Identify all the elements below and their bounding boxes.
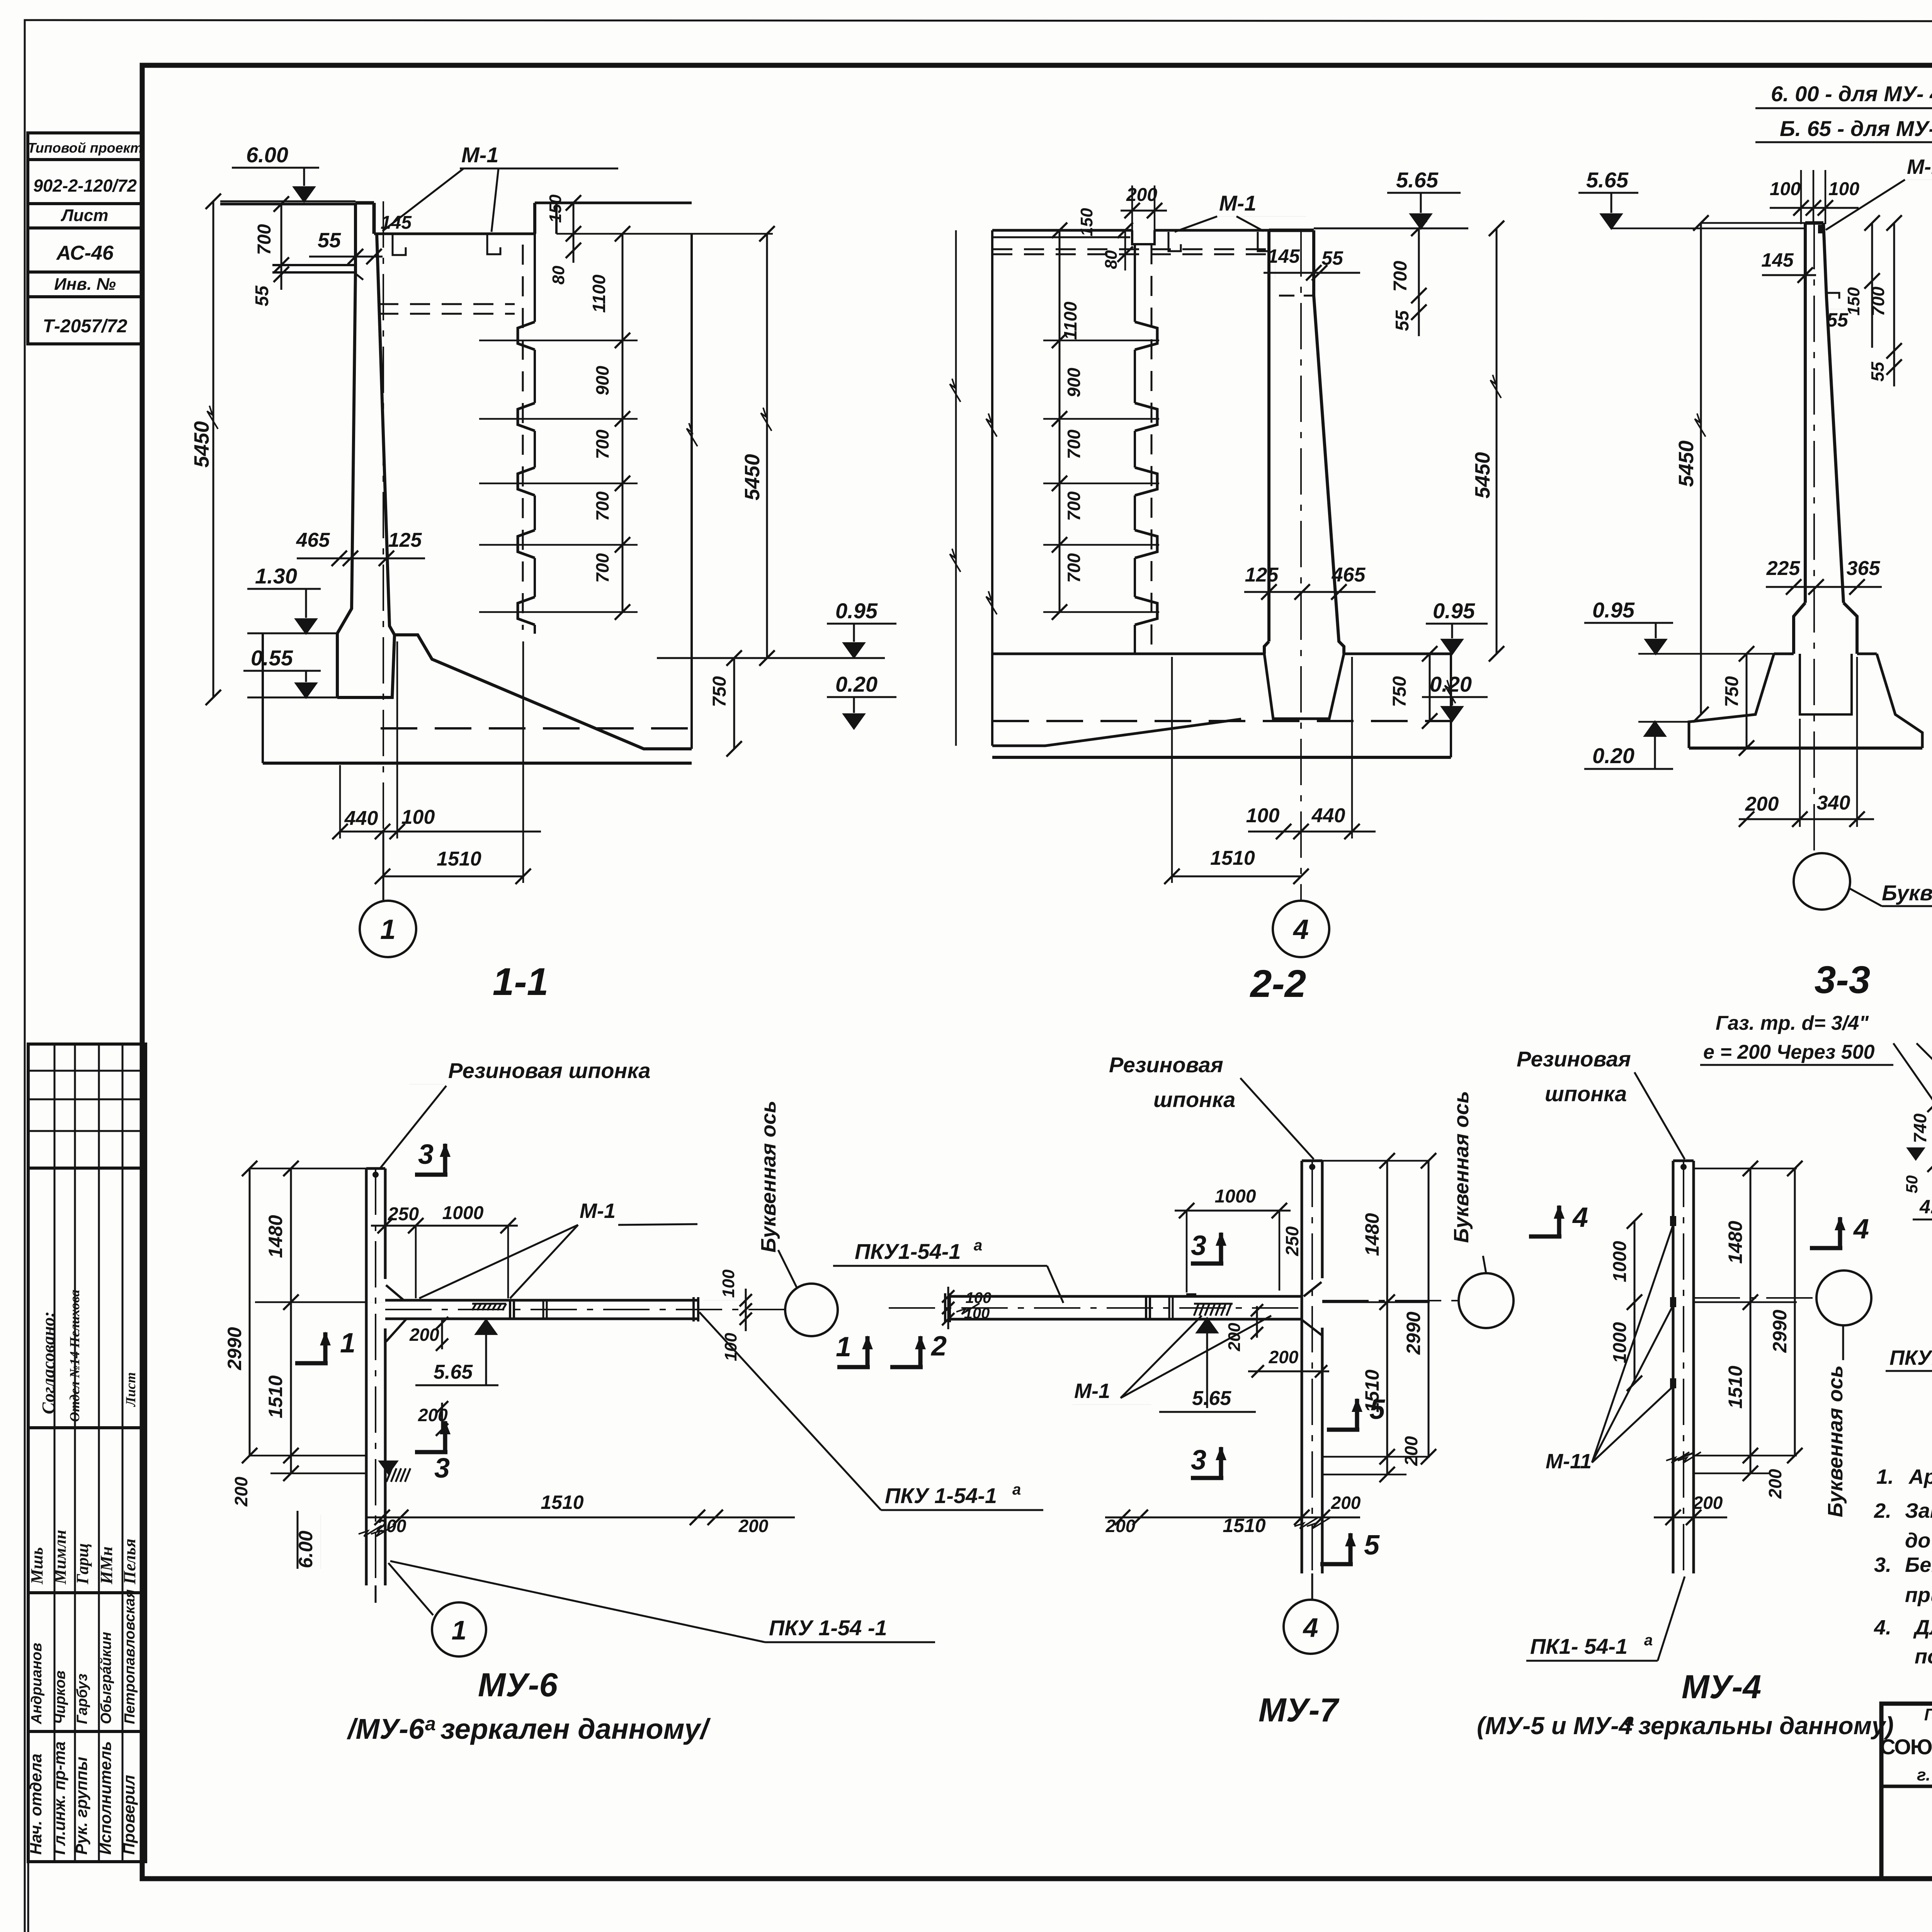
svg-text:6. 00 - для МУ- 4, МУ- 4: 6. 00 - для МУ- 4, МУ- 4: [1771, 82, 1932, 106]
MU-4 letter axis circle: [1816, 1270, 1871, 1325]
svg-text:Пелья: Пелья: [120, 1539, 139, 1585]
svg-text:1510: 1510: [437, 848, 481, 870]
svg-text:80: 80: [1102, 250, 1121, 269]
svg-text:200: 200: [1693, 1493, 1723, 1513]
svg-text:700: 700: [254, 224, 275, 255]
svg-text:1480: 1480: [265, 1215, 286, 1258]
svg-text:700: 700: [1064, 553, 1084, 583]
svg-text:Буквенная ось: Буквенная ось: [1824, 1365, 1847, 1517]
svg-text:Гл.инж. пр-та: Гл.инж. пр-та: [50, 1742, 68, 1855]
svg-text:ПКУ 1-54 -1: ПКУ 1-54 -1: [769, 1616, 887, 1640]
svg-text:200: 200: [1225, 1323, 1244, 1352]
svg-text:применением Вибрирования.: применением Вибрирования.: [1905, 1583, 1932, 1607]
svg-text:100: 100: [1770, 179, 1801, 199]
svg-text:2990: 2990: [224, 1327, 245, 1370]
svg-text:200: 200: [1105, 1516, 1136, 1536]
MU-7 cut symbols 3 3 5 5: [1191, 1232, 1226, 1264]
svg-text:4: 4: [1853, 1214, 1869, 1245]
svg-text:Госстрой: Госстрой: [1924, 1705, 1932, 1724]
MU-7 junction chamfers and hatch: [1304, 1282, 1321, 1296]
svg-text:2: 2: [930, 1331, 947, 1362]
svg-text:М-1: М-1: [461, 143, 498, 167]
svg-text:1000: 1000: [1215, 1186, 1256, 1207]
svg-text:6.00: 6.00: [246, 143, 288, 167]
3-3 axis and letter-axis circle: [1813, 223, 1815, 853]
cut symbols 1 2 between MU-6 and MU-7: [837, 1335, 873, 1367]
MU-7 level mark on branch: [1197, 1318, 1217, 1332]
svg-text:Бетонирование производить: Бетонирование производить с обязательным: [1905, 1553, 1932, 1577]
svg-text:4: 4: [1572, 1202, 1588, 1233]
svg-text:2-2: 2-2: [1250, 962, 1306, 1005]
MU-6 axis circle 1: [375, 1585, 377, 1603]
svg-text:5.65: 5.65: [1586, 168, 1629, 192]
svg-text:ПКУ1-54-1: ПКУ1-54-1: [1889, 1346, 1932, 1369]
svg-text:Исполнитель: Исполнитель: [96, 1741, 114, 1855]
svg-text:200: 200: [1331, 1493, 1361, 1513]
svg-text:2990: 2990: [1403, 1311, 1424, 1355]
svg-text:740: 740: [1910, 1113, 1930, 1143]
svg-text:1-1: 1-1: [493, 960, 549, 1003]
svg-text:Буквенная ось: Буквенная ось: [1450, 1091, 1473, 1243]
svg-text:шпонка: шпонка: [1153, 1087, 1235, 1112]
svg-text:3: 3: [1191, 1445, 1206, 1476]
svg-text:700: 700: [1868, 286, 1888, 316]
svg-text:Гарбуз: Гарбуз: [74, 1673, 90, 1724]
section 2-2 left extension line: [955, 230, 957, 746]
svg-text:е = 200 Через 500: е = 200 Через 500: [1703, 1041, 1875, 1063]
svg-text:1100: 1100: [589, 274, 609, 313]
svg-text:4.75: 4.75: [1919, 1196, 1932, 1218]
svg-text:150: 150: [1844, 287, 1863, 316]
svg-text:250: 250: [1282, 1226, 1302, 1256]
section 1-1 dim 5450 right: [766, 234, 768, 658]
section 2-2 left slab: [992, 229, 1132, 232]
svg-text:а: а: [425, 1713, 436, 1735]
svg-text:/МУ-6: /МУ-6: [347, 1713, 425, 1745]
MU-7 axis circle 4: [1311, 1573, 1313, 1600]
svg-text:ПК1- 54-1: ПК1- 54-1: [1530, 1634, 1628, 1658]
section 1-1 dashed lines: [522, 245, 524, 630]
svg-text:750: 750: [709, 676, 730, 707]
svg-text:1: 1: [340, 1328, 355, 1359]
svg-text:Буквенная ось: Буквенная ось: [757, 1100, 780, 1252]
svg-text:50: 50: [1903, 1175, 1921, 1194]
svg-text:МУ-6: МУ-6: [478, 1667, 558, 1704]
svg-text:200: 200: [1401, 1436, 1421, 1466]
MU-6 junction chamfers and hatch: [366, 1279, 367, 1291]
svg-text:200: 200: [738, 1516, 769, 1536]
svg-text:до бетонирования.: до бетонирования.: [1905, 1529, 1932, 1552]
svg-text:145: 145: [1267, 245, 1300, 267]
section 3-3 footing: [1794, 603, 1805, 654]
svg-text:М-1: М-1: [1219, 191, 1256, 215]
title block frame: [1881, 1704, 1932, 1878]
svg-text:1480: 1480: [1725, 1221, 1746, 1264]
svg-text:700: 700: [1064, 429, 1084, 459]
svg-text:225: 225: [1766, 557, 1801, 580]
svg-text:0.95: 0.95: [835, 599, 878, 623]
section 1-1 footing: [337, 635, 692, 749]
svg-text:Типовой проект: Типовой проект: [27, 140, 143, 156]
svg-text:(МУ-5 и МУ-4: (МУ-5 и МУ-4: [1477, 1712, 1633, 1740]
svg-text:900: 900: [592, 366, 612, 395]
svg-text:700: 700: [592, 553, 612, 583]
svg-text:100: 100: [1828, 179, 1859, 199]
svg-text:200: 200: [231, 1476, 251, 1507]
svg-text:1510: 1510: [1725, 1366, 1746, 1408]
section 1-1 M-1 embed symbols: [393, 234, 406, 255]
svg-text:Т-2057/72: Т-2057/72: [43, 316, 128, 337]
svg-text:а: а: [974, 1237, 982, 1254]
svg-text:0.20: 0.20: [835, 672, 878, 696]
svg-text:4: 4: [1293, 914, 1309, 945]
svg-text:465: 465: [1332, 564, 1366, 586]
svg-text:М-11: М-11: [1907, 155, 1932, 179]
MU-6 wall hatch at 200 mark: [386, 1468, 392, 1482]
left margin stamp block: [28, 1044, 146, 1862]
svg-text:Для водослива принять ор: Для водослива принять органическое подел…: [1913, 1616, 1932, 1639]
svg-text:250: 250: [388, 1204, 419, 1225]
svg-text:700: 700: [592, 491, 612, 521]
MU-4 vertical wall plan: [1672, 1161, 1675, 1573]
svg-text:125: 125: [388, 529, 422, 551]
MU-7 vertical wall plan: [1301, 1161, 1303, 1573]
svg-text:1510: 1510: [1210, 847, 1255, 869]
MU-7 right dim chain: [1386, 1161, 1388, 1475]
MU-7 100 100 labels at branch end: [947, 1287, 949, 1329]
MU-4 M-11 embeds: [1670, 1216, 1676, 1226]
svg-text:Резиновая: Резиновая: [1109, 1053, 1223, 1077]
svg-text:700: 700: [1064, 491, 1084, 521]
svg-text:0.55: 0.55: [251, 646, 293, 670]
svg-text:465: 465: [296, 529, 330, 551]
svg-text:1000: 1000: [442, 1203, 484, 1223]
MU-4 inner dim chain 1000 1000: [1634, 1221, 1636, 1383]
3-3 dim 5450: [1700, 223, 1702, 714]
left margin project table: [28, 133, 142, 344]
svg-text:зеркальны данному): зеркальны данному): [1638, 1712, 1894, 1740]
svg-text:125: 125: [1245, 564, 1279, 586]
svg-text:г. Москва: г. Москва: [1917, 1765, 1932, 1784]
section 1-1 axis circle 1: [383, 832, 384, 900]
svg-text:100: 100: [719, 1269, 738, 1298]
svg-text:150: 150: [1077, 208, 1096, 236]
MU-7 horizontal branch wall (to left): [950, 1295, 1302, 1298]
svg-text:Гарщ: Гарщ: [73, 1543, 92, 1585]
svg-text:по ТУМХП26 - 54 ( см. сеч: по ТУМХП26 - 54 ( см. сечение 6-6).: [1915, 1645, 1932, 1668]
svg-text:1510: 1510: [541, 1492, 583, 1513]
section 1-1 dim 5450 left: [213, 201, 214, 697]
svg-text:4: 4: [1303, 1612, 1318, 1643]
svg-text:5: 5: [1364, 1530, 1380, 1561]
section 2-2 teeth spacing dims: [1059, 230, 1061, 612]
svg-text:5450: 5450: [1675, 440, 1698, 487]
svg-text:МУ-7: МУ-7: [1259, 1692, 1340, 1729]
svg-text:2990: 2990: [1769, 1310, 1791, 1353]
svg-text:1.30: 1.30: [255, 564, 297, 588]
svg-text:1: 1: [380, 914, 396, 945]
svg-text:1.: 1.: [1876, 1465, 1894, 1488]
svg-text:Мшь: Мшь: [27, 1547, 46, 1585]
svg-text:5.65: 5.65: [434, 1361, 473, 1383]
svg-text:а: а: [1625, 1711, 1634, 1730]
svg-text:200: 200: [376, 1516, 406, 1536]
svg-text:Лист: Лист: [123, 1372, 138, 1407]
svg-text:0.20: 0.20: [1430, 672, 1472, 696]
svg-text:5: 5: [1369, 1394, 1385, 1425]
section 2-2 M-1 embeds: [1168, 232, 1181, 251]
3-3 M-11 embed at top: [1818, 225, 1825, 233]
svg-text:365: 365: [1847, 557, 1881, 580]
svg-text:5450: 5450: [1471, 452, 1494, 498]
svg-text:55: 55: [1321, 247, 1344, 269]
section 2-2 axis circle 4: [1300, 230, 1302, 900]
svg-text:М-1: М-1: [1074, 1379, 1110, 1403]
section 1-1 base slab bottom: [263, 762, 692, 765]
svg-text:150: 150: [546, 194, 565, 223]
section 1-1 right wall with shear keys: [535, 202, 692, 204]
MU-6 bottom dims 200 1510 200: [367, 1517, 795, 1519]
svg-text:Отдел №14 Пелихова: Отдел №14 Пелихова: [67, 1290, 82, 1422]
svg-text:ПКУ1-54-1: ПКУ1-54-1: [855, 1239, 961, 1264]
title block left cell: [1881, 1785, 1932, 1788]
MU-6 vertical wall plan: [365, 1168, 368, 1585]
svg-text:55: 55: [1392, 310, 1413, 331]
svg-text:Инв. №: Инв. №: [54, 275, 116, 294]
svg-text:100: 100: [1246, 804, 1280, 827]
svg-text:1510: 1510: [1223, 1515, 1265, 1536]
svg-text:АС-46: АС-46: [56, 242, 114, 264]
MU-7 bottom dims 200 1510 200: [1105, 1517, 1360, 1519]
svg-text:1000: 1000: [1610, 1241, 1630, 1282]
svg-text:Буквенная ось: Буквенная ось: [1882, 881, 1932, 905]
svg-text:а: а: [1012, 1481, 1021, 1498]
svg-text:55: 55: [1867, 361, 1888, 382]
svg-text:Нач. отдела: Нач. отдела: [27, 1753, 45, 1855]
svg-text:Обыгрáйкин: Обыгрáйкин: [98, 1632, 114, 1724]
section 1-1 left slab: [220, 203, 355, 206]
svg-text:Согласовано:: Согласовано:: [38, 1311, 58, 1414]
svg-text:200: 200: [1126, 185, 1157, 205]
svg-text:145: 145: [1761, 249, 1794, 271]
section 2-2 wall column: [1267, 230, 1270, 641]
svg-text:902-2-120/72: 902-2-120/72: [33, 176, 137, 196]
5-5 leaders from gas pipe label: [1893, 1043, 1932, 1169]
svg-text:ПКУ 1-54-1: ПКУ 1-54-1: [885, 1483, 997, 1508]
svg-text:145: 145: [381, 213, 412, 233]
svg-text:Закладные детали заложить: Закладные детали заложить в опалубку: [1905, 1499, 1932, 1522]
svg-text:Лист: Лист: [61, 206, 109, 225]
svg-text:200: 200: [1745, 793, 1779, 815]
MU-6 horizontal branch wall: [385, 1299, 697, 1302]
svg-text:3-3: 3-3: [1815, 958, 1871, 1002]
svg-text:750: 750: [1389, 676, 1410, 707]
MU-6 letter axis circle: [785, 1284, 838, 1336]
MU-6 cut symbols 3 3 1: [415, 1143, 451, 1175]
MU-6 level mark on branch: [476, 1320, 496, 1334]
bottom-left margin lines: [27, 1862, 29, 1932]
svg-text:4.: 4.: [1874, 1616, 1891, 1639]
svg-text:Б. 65 - для МУ- 5,: Б. 65 - для МУ- 5,: [1780, 116, 1932, 141]
section 1-1 teeth spacing dims: [622, 234, 624, 612]
svg-text:100: 100: [964, 1305, 990, 1322]
svg-text:5450: 5450: [190, 421, 213, 468]
svg-text:1000: 1000: [1610, 1322, 1630, 1363]
section 2-2 dim 5450: [1496, 228, 1498, 654]
svg-text:440: 440: [344, 807, 378, 830]
svg-text:Резиновая шпонка: Резиновая шпонка: [448, 1058, 651, 1083]
svg-text:МУ-4: МУ-4: [1682, 1668, 1761, 1706]
svg-text:Петропавловская: Петропавловская: [122, 1589, 138, 1724]
section 1-1 wall column: [355, 201, 374, 205]
MU-6 left dim chain: [290, 1168, 292, 1473]
section 2-2 left edge: [991, 230, 993, 746]
svg-text:700: 700: [1390, 261, 1411, 292]
svg-text:ИМн: ИМн: [97, 1546, 116, 1585]
svg-text:200: 200: [1269, 1347, 1299, 1367]
svg-text:0.95: 0.95: [1592, 598, 1635, 622]
svg-text:0.95: 0.95: [1433, 599, 1475, 623]
svg-text:100: 100: [401, 806, 435, 828]
svg-text:0.20: 0.20: [1592, 743, 1634, 768]
MU-4 cut symbols 4 4: [1529, 1205, 1565, 1236]
svg-text:Газ. тр. d= 3/4": Газ. тр. d= 3/4": [1716, 1012, 1869, 1034]
svg-text:900: 900: [1064, 367, 1084, 397]
svg-text:3.: 3.: [1874, 1553, 1891, 1577]
svg-text:5.65: 5.65: [1192, 1387, 1231, 1410]
svg-text:700: 700: [592, 429, 612, 459]
svg-text:М-1: М-1: [580, 1199, 616, 1223]
svg-text:80: 80: [549, 265, 568, 284]
svg-text:Резиновая: Резиновая: [1517, 1047, 1631, 1071]
svg-text:а: а: [1644, 1632, 1653, 1649]
svg-text:1510: 1510: [265, 1375, 286, 1418]
section 3-3 wall column: [1805, 221, 1823, 225]
section 2-2 inner toothed face: [1135, 322, 1157, 350]
svg-text:340: 340: [1817, 792, 1850, 814]
MU-4 right dim chain: [1750, 1168, 1752, 1473]
svg-text:1480: 1480: [1361, 1213, 1383, 1256]
svg-text:5450: 5450: [741, 454, 764, 500]
svg-text:55: 55: [252, 285, 272, 306]
MU-7 letter axis circle: [1459, 1273, 1514, 1328]
svg-text:3: 3: [418, 1139, 434, 1170]
MU-7 M-1 embed dash: [1186, 1293, 1196, 1297]
svg-text:Арматурные чертежи см. л: Арматурные чертежи см. л.л. АС- 47,48,49…: [1908, 1465, 1932, 1488]
svg-text:М-11: М-11: [1546, 1450, 1592, 1473]
svg-text:1: 1: [836, 1332, 851, 1362]
svg-text:55: 55: [318, 229, 341, 252]
MU-4 bottom dim 200: [1654, 1517, 1727, 1519]
section 2-2 footing & floor: [992, 653, 1264, 655]
svg-text:Андрианов: Андрианов: [29, 1643, 45, 1725]
svg-text:2.: 2.: [1874, 1499, 1891, 1522]
svg-text:5.65: 5.65: [1396, 168, 1439, 192]
svg-text:Рук. группы: Рук. группы: [72, 1757, 90, 1855]
svg-text:Проверил: Проверил: [120, 1775, 138, 1855]
svg-text:3: 3: [434, 1453, 450, 1484]
svg-text:440: 440: [1311, 804, 1345, 827]
svg-text:200: 200: [409, 1325, 439, 1345]
svg-text:1: 1: [452, 1615, 467, 1645]
svg-text:3: 3: [1191, 1230, 1206, 1261]
svg-text:зеркален данному/: зеркален данному/: [440, 1713, 711, 1745]
svg-text:шпонка: шпонка: [1545, 1082, 1627, 1106]
svg-text:1100: 1100: [1060, 301, 1080, 340]
svg-text:Мимлн: Мимлн: [51, 1530, 70, 1585]
svg-text:Чирков: Чирков: [52, 1670, 68, 1724]
svg-text:750: 750: [1722, 676, 1742, 707]
